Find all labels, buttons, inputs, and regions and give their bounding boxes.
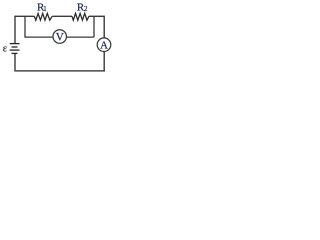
wire voltmeter branch right horizontal xyxy=(67,36,94,38)
resistor R2 xyxy=(72,13,89,20)
wire right edge upper (corner to ammeter) xyxy=(103,16,105,38)
wire bottom xyxy=(14,70,105,72)
battery cell plate short 1 xyxy=(12,46,18,48)
battery cell plate long 2 xyxy=(10,49,20,51)
wire top-left segment xyxy=(15,15,34,17)
ammeter U-A circle xyxy=(97,38,111,52)
wire voltmeter branch left horizontal xyxy=(24,36,52,38)
svg-text:ε: ε xyxy=(3,44,7,55)
wire voltmeter branch left vertical xyxy=(24,16,26,37)
svg-text:2: 2 xyxy=(84,5,88,13)
svg-text:V: V xyxy=(56,31,64,43)
wire right edge lower (ammeter to bottom corner) xyxy=(103,52,105,71)
voltmeter U-V circle xyxy=(53,30,66,44)
svg-text:A: A xyxy=(100,40,108,52)
battery cell plate long 1 xyxy=(10,43,20,45)
svg-text:1: 1 xyxy=(43,4,47,13)
wire left edge upper (corner to battery) xyxy=(14,16,16,44)
resistor R1 xyxy=(34,13,52,20)
wire R2 to top-right corner xyxy=(89,15,104,17)
wire left edge lower (battery to bottom wire) xyxy=(14,54,16,71)
wire between R1 and R2 xyxy=(52,15,72,17)
battery cell plate short 2 xyxy=(12,52,18,54)
wire voltmeter branch right vertical xyxy=(93,16,95,37)
